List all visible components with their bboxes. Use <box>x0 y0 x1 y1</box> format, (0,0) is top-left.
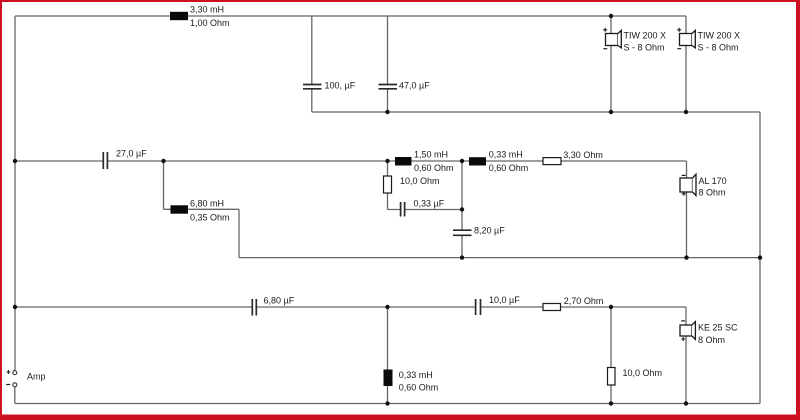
capacitor C5 8,20µF <box>453 230 472 235</box>
wire top rail <box>15 15 686 17</box>
amp plus sign <box>6 370 10 374</box>
amp minus sign <box>6 384 10 386</box>
capacitor C3 27µF <box>103 152 107 169</box>
amp minus terminal <box>13 383 17 387</box>
wire C2 bottom stub <box>387 89 389 112</box>
node mid lower rail C5 <box>460 255 464 259</box>
node tweeter rail R4 tap <box>609 305 613 309</box>
node top rail TIW1 <box>609 14 613 18</box>
wire L2 row <box>164 208 240 210</box>
wire mid rail left of C3 <box>15 160 103 162</box>
polarity SP4 minus <box>681 320 685 322</box>
svg-text:8 Ohm: 8 Ohm <box>698 335 725 345</box>
polarity SP3 minus <box>682 174 686 176</box>
svg-text:0,33 mH: 0,33 mH <box>489 149 523 159</box>
wire bottom rail <box>15 403 760 405</box>
node tweeter rail left <box>13 305 17 309</box>
speaker SP2 TIW 200 X <box>680 30 696 48</box>
node mid rail C5 tap <box>460 159 464 163</box>
node mid rail left <box>13 159 17 163</box>
wire mid lower rail <box>239 257 760 259</box>
svg-text:6,80 mH: 6,80 mH <box>190 198 224 208</box>
svg-text:47,0 µF: 47,0 µF <box>399 81 430 91</box>
svg-text:0,33 mH: 0,33 mH <box>399 370 433 380</box>
svg-text:10,0 Ohm: 10,0 Ohm <box>400 176 440 186</box>
wire tweeter rail C7 to R3 <box>481 306 543 308</box>
svg-text:8 Ohm: 8 Ohm <box>699 187 726 197</box>
node bottom rail KE25 <box>684 401 688 405</box>
svg-text:0,60 Ohm: 0,60 Ohm <box>414 163 454 173</box>
node tweeter rail L5 tap <box>385 305 389 309</box>
svg-text:1,50 mH: 1,50 mH <box>414 149 448 159</box>
svg-text:10,0 µF: 10,0 µF <box>489 295 520 305</box>
wire woofer lower rail <box>312 111 760 113</box>
svg-text:3,30 Ohm: 3,30 Ohm <box>563 150 603 160</box>
wire L2 corner drop <box>238 209 240 257</box>
svg-text:TIW 200 X: TIW 200 X <box>624 31 667 41</box>
resistor R1 10,0 Ohm <box>384 176 392 193</box>
node mid rail L2 tap <box>161 159 165 163</box>
node C4 junction <box>460 207 464 211</box>
wire right vertical bus <box>759 112 761 404</box>
capacitor C6 6,80µF <box>252 299 256 316</box>
inductor L4 0,33 mH <box>469 157 486 165</box>
resistor R4 10,0 Ohm <box>608 368 616 386</box>
svg-text:S - 8 Ohm: S - 8 Ohm <box>624 43 665 53</box>
svg-text:S - 8 Ohm: S - 8 Ohm <box>698 43 739 53</box>
node woofer rail C2 <box>385 110 389 114</box>
resistor R2 3,30 Ohm <box>543 158 561 165</box>
wire C5 branch <box>461 161 463 258</box>
wire R4 branch <box>610 307 612 404</box>
capacitor C1 100µF <box>303 85 322 89</box>
svg-text:0,35 Ohm: 0,35 Ohm <box>190 213 230 223</box>
polarity SP4 plus <box>681 337 685 341</box>
svg-text:8,20 µF: 8,20 µF <box>474 225 505 235</box>
node bottom rail L5 <box>385 401 389 405</box>
amp plus terminal <box>13 371 17 375</box>
node woofer rail TIW1 <box>609 110 613 114</box>
polarity SP2 minus <box>677 48 681 50</box>
svg-text:2,70 Ohm: 2,70 Ohm <box>564 296 604 306</box>
capacitor C4 0,33µF <box>401 202 405 217</box>
wire L2 branch drop <box>163 161 165 209</box>
svg-text:1,00 Ohm: 1,00 Ohm <box>190 18 230 28</box>
svg-text:0,60 Ohm: 0,60 Ohm <box>399 383 439 393</box>
wire C4 row <box>388 209 463 211</box>
node mid rail R1 tap <box>385 159 389 163</box>
wire R1 branch <box>387 161 389 210</box>
svg-text:KE 25 SC: KE 25 SC <box>698 322 738 332</box>
inductor L3 1,50 mH <box>395 157 412 166</box>
svg-text:10,0 Ohm: 10,0 Ohm <box>623 368 663 378</box>
wire KE25 branch <box>685 307 687 404</box>
svg-text:TIW 200 X: TIW 200 X <box>698 31 741 41</box>
svg-text:6,80 µF: 6,80 µF <box>264 295 295 305</box>
speaker SP4 KE 25 SC <box>680 322 695 340</box>
svg-text:3,30 mH: 3,30 mH <box>190 4 224 14</box>
wire C2 top drop <box>387 16 389 84</box>
polarity SP1 minus <box>603 48 607 50</box>
capacitor C2 47µF <box>379 85 398 89</box>
inductor L2 6,80 mH <box>171 205 189 213</box>
node bottom rail R4 <box>609 401 613 405</box>
wire mid rail R2 to AL170 <box>561 160 687 162</box>
node woofer rail TIW2 <box>684 110 688 114</box>
resistor R3 2,70 Ohm <box>543 304 561 311</box>
wire mid rail C3 to R2 <box>108 160 544 162</box>
node mid lower rail right <box>758 255 762 259</box>
polarity SP2 plus <box>677 28 681 32</box>
wire L5 branch <box>387 307 389 404</box>
speaker SP1 TIW 200 X <box>606 30 622 48</box>
wire left vertical bus <box>14 16 16 371</box>
polarity SP1 plus <box>603 28 607 32</box>
speaker SP3 AL 170 <box>680 174 696 195</box>
polarity SP3 plus <box>682 192 686 196</box>
wire TIW1 branch <box>610 16 612 112</box>
svg-text:100, µF: 100, µF <box>325 81 356 91</box>
svg-text:AL 170: AL 170 <box>699 176 727 186</box>
svg-text:27,0 µF: 27,0 µF <box>116 148 147 158</box>
capacitor C7 10,0µF <box>476 299 481 315</box>
inductor L1 3,30 mH <box>170 12 188 20</box>
wire amp minus drop <box>14 387 16 404</box>
wire TIW2 branch <box>685 16 687 112</box>
wire tweeter rail C6 to C7 <box>256 306 475 308</box>
wire AL170 branch <box>686 161 688 258</box>
node mid lower rail AL170 <box>684 255 688 259</box>
svg-text:0,33 µF: 0,33 µF <box>414 198 445 208</box>
svg-text:0,60 Ohm: 0,60 Ohm <box>489 163 529 173</box>
svg-text:Amp: Amp <box>27 372 46 382</box>
wire C1 top drop <box>311 16 313 84</box>
wire tweeter rail R3 to KE25 <box>561 306 687 308</box>
wire tweeter rail left of C6 <box>15 306 252 308</box>
wire C1 bottom stub <box>311 89 313 112</box>
inductor L5 0,33 mH <box>384 370 393 387</box>
